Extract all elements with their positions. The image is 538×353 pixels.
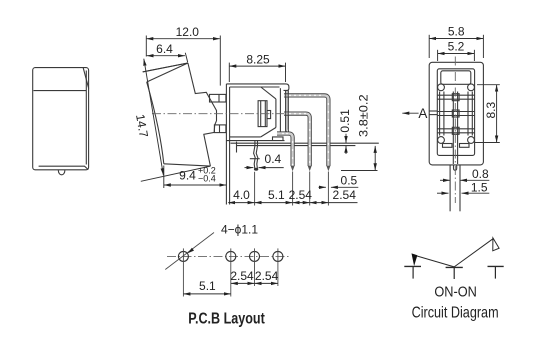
switch body inner bottom edge <box>230 136 261 138</box>
svg-text:2.54: 2.54 <box>333 188 357 202</box>
locating peg left side <box>254 141 256 168</box>
dimension 12.0 <box>146 38 220 40</box>
rocker pivot tab upper <box>210 94 226 102</box>
switch body outer left edge <box>225 84 227 205</box>
terminal pin 1 (top) <box>284 95 328 166</box>
svg-text:0.8: 0.8 <box>472 167 489 181</box>
body right bracket outer <box>288 90 294 142</box>
rocker paddle top edge lower <box>147 63 188 82</box>
dimension 2.54 pcb second <box>255 282 278 284</box>
rocker paddle top edge upper <box>143 63 188 72</box>
contact bar 1 <box>437 94 474 96</box>
extension line below peg <box>254 172 256 206</box>
dimension 1.5 <box>437 192 449 194</box>
pcb hole 1 <box>178 251 188 261</box>
circuit terminal bar right <box>488 265 504 267</box>
mounting foot tick <box>236 142 238 153</box>
svg-text:12.0: 12.0 <box>176 25 200 39</box>
mounting hole top right <box>468 84 475 91</box>
svg-text:3.8±0.2: 3.8±0.2 <box>357 94 371 137</box>
switch body inner left edge <box>229 87 231 205</box>
bottom pin right edge <box>459 165 461 212</box>
hole 1 vertical axis and extension <box>182 248 184 296</box>
dimension 0.51 <box>345 134 347 143</box>
locating peg step tick <box>250 158 260 160</box>
pcb hole 3 <box>250 251 260 261</box>
dimension 6.4 <box>147 55 185 57</box>
centerline of side view <box>152 113 297 115</box>
side rails <box>439 92 441 136</box>
front view top groove line <box>34 90 87 92</box>
svg-text:4−ϕ1.1: 4−ϕ1.1 <box>221 222 258 236</box>
switch body top right flange <box>283 84 289 91</box>
interior second wall <box>279 88 281 135</box>
dimension 9.4 <box>164 184 227 186</box>
svg-text:0.5: 0.5 <box>341 173 358 187</box>
locating peg right side <box>256 141 258 168</box>
open contact triangle <box>493 238 499 251</box>
leader arrowhead <box>187 248 194 254</box>
mounting hole bottom right <box>468 137 475 144</box>
switch body inner top edge <box>230 86 280 88</box>
front view bottom notch <box>58 170 65 175</box>
circuit terminal bar left <box>404 265 421 267</box>
pcb hole 2 <box>226 251 236 261</box>
top view keying recess <box>441 71 471 85</box>
dimension 8.3 <box>496 85 498 143</box>
terminal pin 2 (middle) <box>284 114 310 166</box>
extension line below pin 3 <box>292 172 294 206</box>
circuit terminal stub middle <box>453 267 455 279</box>
svg-text:4.0: 4.0 <box>233 188 250 202</box>
pcb centerline <box>167 255 290 257</box>
svg-text:0.51: 0.51 <box>338 109 352 133</box>
contact bar 2 <box>437 111 474 113</box>
contact tab <box>267 111 271 119</box>
dimension 14.7 <box>144 59 164 176</box>
front view top-right corner bevel <box>83 68 89 89</box>
svg-text:P.C.B Layout: P.C.B Layout <box>188 311 265 328</box>
central shaft <box>452 92 454 165</box>
pcb hole 4 <box>273 251 283 261</box>
dimension 8.25 <box>229 65 285 67</box>
svg-text:2.54: 2.54 <box>289 188 313 202</box>
svg-text:5.8: 5.8 <box>448 24 465 38</box>
hole 4 vertical axis and extension <box>277 248 279 286</box>
rocker paddle right edge <box>188 63 217 166</box>
dimension 0.8 <box>440 179 450 181</box>
interior top chamfer <box>261 87 276 99</box>
dimension 0.5 <box>319 186 326 188</box>
svg-text:−0.4: −0.4 <box>198 173 216 183</box>
front view: rocker button outline <box>33 68 89 170</box>
svg-text:A: A <box>418 106 427 121</box>
bottom pin slot <box>454 165 457 171</box>
circuit lever to right contact <box>454 238 493 267</box>
svg-text:8.25: 8.25 <box>246 53 270 67</box>
dimension 5.1 pcb <box>183 293 230 295</box>
switch body bottom right step <box>273 137 284 141</box>
section arrow A <box>402 112 418 114</box>
top view inner outline <box>437 69 474 156</box>
svg-text:2.54: 2.54 <box>255 269 279 283</box>
seating line upper <box>231 142 379 144</box>
dimension 2.54 pcb first <box>231 282 255 284</box>
locating peg tip <box>254 168 258 171</box>
bottom brackets <box>443 144 453 148</box>
svg-text:14.7: 14.7 <box>133 113 151 139</box>
svg-text:1.5: 1.5 <box>471 180 488 194</box>
svg-text:5.2: 5.2 <box>448 40 465 54</box>
dimension 5.2 <box>438 53 475 55</box>
leader line for hole size <box>165 233 214 270</box>
svg-text:5.1: 5.1 <box>268 188 285 202</box>
seating line lower <box>237 145 355 147</box>
rocker paddle bottom edge <box>164 164 211 166</box>
hole 2 vertical axis and extension <box>230 248 232 296</box>
extension line below pin 1 <box>327 172 329 206</box>
circuit terminal stub left <box>412 266 414 278</box>
switch body bottom edge <box>226 140 284 142</box>
circuit lever to left contact <box>417 256 454 267</box>
rocker paddle left face <box>147 82 164 164</box>
svg-text:2.54: 2.54 <box>230 269 254 283</box>
extension line below pin 2 <box>309 172 311 206</box>
dimension 3.8±0.2 <box>374 146 376 170</box>
dimension 0.4 <box>245 167 254 169</box>
mounting hole bottom left <box>438 137 445 144</box>
dimension 5.8 <box>429 38 483 40</box>
front view inner bottom edge <box>39 166 89 169</box>
bracket lines over pins <box>285 90 287 131</box>
rocker pivot tab lower <box>214 125 226 133</box>
interior right wall <box>275 99 277 128</box>
front view inner right edge <box>85 71 87 165</box>
top view outer outline <box>429 62 483 165</box>
hole 3 vertical axis and extension <box>254 248 256 286</box>
pin rivet dots <box>282 95 329 166</box>
switch body top edge <box>226 83 283 85</box>
svg-text:0.4: 0.4 <box>265 152 282 166</box>
svg-text:6.4: 6.4 <box>156 42 173 56</box>
svg-text:5.1: 5.1 <box>199 279 216 293</box>
closed contact wedge <box>412 253 418 266</box>
circuit terminal bar middle <box>446 266 463 268</box>
svg-text:9.4: 9.4 <box>179 168 196 182</box>
svg-text:8.3: 8.3 <box>484 102 498 119</box>
contact slot <box>258 101 267 127</box>
svg-text:Circuit Diagram: Circuit Diagram <box>412 304 499 321</box>
top view centerline <box>454 57 456 164</box>
interior bottom chamfer <box>261 128 276 137</box>
mounting hole top left <box>438 84 445 91</box>
svg-text:ON-ON: ON-ON <box>434 284 477 300</box>
circuit terminal stub right <box>494 266 496 278</box>
contact bar 3 <box>437 128 474 130</box>
dimension row 4.0 / 5.1 / 2.54 / 2.54 <box>228 202 254 204</box>
bottom pin left edge <box>449 165 451 212</box>
body right bracket inner <box>286 90 288 132</box>
terminal pin 3 (bottom) <box>277 134 293 167</box>
